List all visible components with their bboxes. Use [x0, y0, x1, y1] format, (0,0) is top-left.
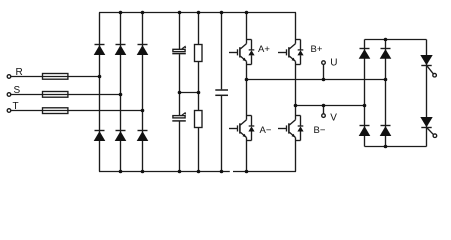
node top bus leg3	[141, 11, 145, 15]
svg-text:A−: A−	[260, 125, 272, 136]
fuse F1	[43, 74, 68, 80]
svg-text:B+: B+	[311, 44, 323, 55]
wire bridge bottom bus	[365, 146, 427, 148]
wire output U	[247, 79, 386, 81]
transistor B-	[278, 116, 304, 141]
diode D5	[115, 131, 127, 142]
label U	[330, 58, 337, 69]
wire rectifier leg 1	[99, 13, 101, 172]
node V at bridge	[363, 104, 367, 108]
svg-text:U: U	[330, 58, 337, 69]
label B+	[311, 44, 323, 55]
label V	[330, 113, 337, 124]
diode D7	[359, 49, 371, 59]
wire phase T	[11, 110, 143, 112]
svg-text:A+: A+	[258, 44, 270, 55]
resistor R2	[195, 111, 203, 128]
label S	[14, 85, 21, 96]
wire V terminal stub	[323, 106, 325, 114]
node U at bridge	[384, 78, 388, 82]
diode D8	[380, 49, 392, 59]
wire thyristor column	[426, 40, 428, 147]
diode D4	[94, 131, 106, 142]
capacitor C2	[172, 113, 186, 121]
thyristor SCR2	[420, 117, 436, 138]
transistor A-	[229, 116, 255, 141]
node U at leg A	[245, 78, 249, 82]
fuse F3	[43, 108, 68, 114]
capacitor C1	[172, 47, 186, 54]
node top bus leg2	[119, 11, 123, 15]
fuse F2	[43, 92, 68, 98]
diode D10	[380, 126, 392, 137]
resistor R1	[195, 45, 203, 62]
capacitor C3	[215, 90, 228, 95]
wire rectifier leg 3	[142, 13, 144, 172]
node balance right	[197, 91, 201, 95]
terminal R	[7, 75, 11, 79]
terminal S	[7, 93, 11, 97]
diode D6	[137, 131, 149, 142]
diode D3	[137, 45, 149, 56]
node balance left	[178, 91, 182, 95]
label R	[16, 67, 23, 78]
terminal U	[322, 61, 326, 65]
transistor B+	[278, 40, 304, 65]
node S junction	[119, 93, 123, 97]
node bottom bus leg A	[245, 170, 249, 174]
wire bridge column 2	[385, 40, 387, 147]
node bottom bus cap leg	[178, 170, 182, 174]
transistor A+	[229, 40, 255, 65]
node top bus res leg	[197, 11, 201, 15]
wire phase R	[11, 76, 100, 78]
svg-text:V: V	[330, 113, 337, 124]
wire bridge column 1	[364, 40, 366, 147]
wire capacitor leg	[179, 13, 181, 172]
wire balance connector	[180, 92, 199, 94]
node bottom bus leg3	[141, 170, 145, 174]
thyristor SCR1	[420, 55, 436, 77]
label B-	[314, 125, 326, 136]
wire bridge top bus	[365, 39, 427, 41]
diode D2	[115, 45, 127, 56]
node top bus leg A	[245, 11, 249, 15]
node top bus dc cap	[220, 11, 224, 15]
node U stub	[322, 78, 326, 82]
label A-	[260, 125, 272, 136]
node bridge bottom	[384, 145, 388, 149]
wire IGBT leg A	[246, 13, 248, 172]
node R junction	[98, 75, 102, 79]
node top bus cap leg	[178, 11, 182, 15]
diode D1	[94, 45, 106, 56]
wire rectifier leg 2	[120, 13, 122, 172]
label A+	[258, 44, 270, 55]
node bottom bus res leg	[197, 170, 201, 174]
node bottom bus dc cap	[220, 170, 224, 174]
node T junction	[141, 109, 145, 113]
wire U terminal stub	[323, 64, 325, 79]
label T	[13, 101, 19, 112]
diode D9	[359, 126, 371, 137]
terminal T	[7, 109, 11, 113]
wire resistor leg	[198, 13, 200, 172]
node bottom bus leg2	[119, 170, 123, 174]
wire DC link capacitor leg	[221, 13, 223, 172]
node V stub	[322, 104, 326, 108]
svg-text:B−: B−	[314, 125, 326, 136]
wire output V	[296, 105, 365, 107]
node V at leg B	[294, 104, 298, 108]
wire phase S	[11, 94, 121, 96]
wire IGBT leg B	[295, 13, 297, 172]
wire top DC+ bus	[99, 12, 296, 14]
terminal V	[322, 114, 326, 118]
wire bottom DC- bus	[99, 171, 296, 173]
node bridge top	[384, 38, 388, 42]
